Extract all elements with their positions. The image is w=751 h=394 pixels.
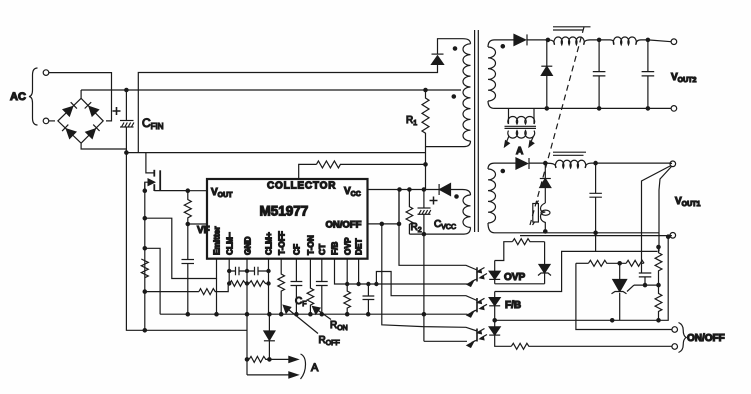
- MOSFET Q1 (startup device): [145, 153, 188, 191]
- transformer T1 primary winding: [426, 44, 471, 147]
- junction (368.4,284): [367, 282, 370, 285]
- junction (358.6,284): [357, 282, 360, 285]
- wire: [286, 308, 318, 334]
- terminal: [671, 39, 677, 45]
- phototransistor PC2 (F/B): [376, 272, 487, 318]
- wire AC2 to bridge left corner: [49, 120, 55, 122]
- wire arrow A1: [269, 358, 291, 360]
- wire to V_OUT2 + terminal: [648, 40, 671, 42]
- node C_FIN bottom: [125, 151, 128, 154]
- junction (494.7,320.3): [493, 319, 496, 322]
- svg-text:CLM−: CLM−: [225, 232, 235, 255]
- svg-text:Emitter: Emitter: [212, 226, 222, 255]
- wire: [283, 305, 290, 313]
- capacitor C_FIN: [113, 90, 134, 153]
- AC brace: [29, 68, 38, 125]
- primary tap polarity dot: [452, 95, 455, 98]
- resistor OVP series: [512, 239, 544, 245]
- junction (296.4,314.2): [295, 313, 298, 316]
- junction (269.4,359.4): [268, 358, 271, 361]
- gate rail: [144, 183, 146, 331]
- S1 polarity dot: [501, 45, 504, 48]
- capacitor GND to CLM+: [247, 267, 269, 275]
- ferrite bead: [541, 203, 551, 231]
- diode drive (below CLM+): [264, 314, 275, 359]
- wire + rail (y=90) to transformer tap: [81, 89, 461, 91]
- diode rect V_OUT1: [516, 158, 545, 169]
- junction (144.8,190.7): [143, 189, 146, 192]
- junction (658.5,247): [657, 245, 660, 248]
- junction (381.8,223.9): [380, 222, 383, 225]
- capacitor VF filter: [182, 224, 195, 314]
- wire: [659, 237, 669, 321]
- wire aux return down through rail to PC3 emitter: [423, 234, 425, 341]
- junction (545.3,231.4): [544, 230, 547, 233]
- terminal: [670, 233, 676, 239]
- wire clamp line y=72.5: [138, 65, 437, 153]
- capacitor FB comp: [639, 263, 652, 285]
- diode rect V_OUT2: [514, 34, 548, 45]
- svg-text:F/B: F/B: [330, 242, 340, 255]
- sense line A from +terminal: [642, 166, 672, 264]
- svg-text:CT: CT: [317, 244, 327, 255]
- resistor (VOUT to VF): [184, 191, 191, 224]
- secondary winding S1 (V_OUT2): [488, 40, 514, 109]
- DET pin stub: [358, 259, 360, 284]
- junction (619.7,263.3): [618, 262, 621, 265]
- wire AC1 to bridge right corner: [49, 73, 112, 121]
- wire bridge - output to C_FIN bottom node: [81, 143, 126, 149]
- junction (368.2,314.2): [367, 313, 370, 316]
- wire F/B anode feed: [495, 251, 658, 291]
- resistor GND to CLM+: [249, 281, 269, 287]
- svg-text:COLLECTOR: COLLECTOR: [267, 181, 336, 192]
- wire collector pin: [299, 164, 317, 179]
- wire: [313, 307, 321, 315]
- junction (647.9,39.9): [646, 38, 649, 41]
- junction (310.4,314.2): [309, 313, 312, 316]
- clamp diode (primary top): [432, 39, 471, 65]
- ON/OFF pullup line: [576, 263, 672, 329]
- resistor FB bias 1: [588, 260, 619, 266]
- F/B pin net: [335, 259, 468, 284]
- junction (281.2,314.2): [280, 313, 283, 316]
- divider resistor upper: [655, 247, 662, 285]
- junction (187.8,314.2): [186, 313, 189, 316]
- wire: [289, 356, 298, 362]
- node + rail: [125, 88, 128, 91]
- resistor OVP pin: [344, 259, 351, 315]
- pin ladder caps CLM-/GND/CLM+: [228, 259, 271, 315]
- svg-text:CLM+: CLM+: [264, 232, 274, 255]
- junction (423.9,189.5): [422, 188, 425, 191]
- V_OUT2 return rail: [495, 107, 672, 109]
- junction (144.8,218.2): [143, 217, 146, 220]
- node VF: [186, 222, 189, 225]
- IC pin labels: [212, 226, 364, 255]
- svg-text:OVP: OVP: [343, 237, 353, 255]
- resistor FB bias 2: [620, 260, 644, 266]
- wire to V_OUT1 + terminal: [596, 162, 672, 164]
- left rail from C_FIN minus: [126, 153, 247, 331]
- node collector R1 bottom: [424, 163, 427, 166]
- bridge rectifier D1-D4: [58, 98, 103, 143]
- junction (409.4,189.5): [408, 188, 411, 191]
- resistor R1: [422, 90, 429, 164]
- phototransistor PC3 (ON/OFF): [382, 323, 487, 348]
- terminal: [671, 106, 677, 112]
- svg-text:A: A: [516, 146, 523, 157]
- wire rail2 to bottom rail: [145, 248, 160, 314]
- svg-text:ON/OFF: ON/OFF: [687, 333, 725, 344]
- junction (645,285.1): [643, 283, 646, 286]
- junction (658.5,285.1): [657, 283, 660, 286]
- svg-text:OVP: OVP: [504, 272, 525, 283]
- terminal: [670, 161, 676, 167]
- wire emitter pin stub: [216, 279, 218, 315]
- LED ON/OFF: [489, 320, 511, 346]
- wire to IC V_OUT pin: [188, 190, 207, 192]
- resistor ON/OFF series: [511, 343, 672, 349]
- sense line B from +terminal: [659, 167, 672, 252]
- aux polarity dot: [455, 195, 458, 198]
- zener OVP: [538, 242, 551, 284]
- node R1 top: [424, 88, 427, 91]
- junction (216.5,314.2): [215, 313, 218, 316]
- secondary winding S2 (V_OUT1): [488, 163, 516, 233]
- wire: [425, 164, 427, 189]
- junction (247,359.4): [245, 358, 248, 361]
- diode freewheel V_OUT2: [541, 40, 552, 109]
- choke L1 with core: [548, 27, 599, 45]
- junction (668.2,236.7): [667, 235, 670, 238]
- damping resistor (rectangle): [533, 201, 539, 226]
- choke L2: [599, 37, 648, 45]
- capacitor C_VCC: [418, 190, 438, 235]
- junction (612.2,320.3): [611, 319, 614, 322]
- shunt regulator TL431: [612, 263, 635, 320]
- resistor R2: [406, 190, 413, 235]
- junction (547.9,39.9): [546, 38, 549, 41]
- transformer aux winding: [409, 195, 470, 234]
- junction (423.9,234.1): [422, 232, 425, 235]
- junction (321.8,314.2): [320, 313, 323, 316]
- wire emitter loop: [145, 218, 217, 278]
- wire ON/OFF pin to Vcc pullup: [368, 190, 400, 224]
- junction (376.4,284): [375, 282, 378, 285]
- wire VF to IC: [188, 223, 207, 225]
- divider resistor lower: [655, 285, 662, 320]
- junction (595.6,163.1): [594, 161, 597, 164]
- resistor CLM- sense: [199, 284, 228, 295]
- capacitor C_out2 a: [593, 40, 606, 109]
- V_OUT1 return rail: [495, 232, 659, 234]
- junction (144.8,330.3): [143, 329, 146, 332]
- svg-text:AC: AC: [10, 91, 26, 103]
- junction (347.2,314.2): [346, 313, 349, 316]
- capacitor C_out2 b: [642, 42, 655, 109]
- wire minus rail y=152.6: [126, 152, 425, 154]
- wire ON/OFF pin down to PC3 collector: [381, 224, 383, 323]
- wire GND line down: [246, 314, 248, 375]
- dashed coupling line: [530, 27, 584, 225]
- S2 polarity dot: [501, 169, 504, 172]
- transformer A core: [505, 126, 537, 128]
- wire Vcc line: [368, 189, 440, 191]
- svg-text:M51977: M51977: [260, 204, 309, 219]
- junction (595.6,232.8): [594, 231, 597, 234]
- junction (399,223.9): [397, 222, 400, 225]
- IC U1 M51977 box: [207, 179, 368, 259]
- capacitor CT pin: [316, 259, 328, 315]
- svg-text:DET: DET: [354, 238, 364, 255]
- junction (647.9,108.4): [646, 107, 649, 110]
- capacitor C_out1: [589, 163, 602, 251]
- LED OVP: [489, 261, 500, 284]
- junction (546.8,108.4): [545, 107, 548, 110]
- primary polarity dot top: [453, 47, 456, 50]
- wire OVP anode feed: [495, 242, 513, 261]
- junction (144.8,291.6): [143, 290, 146, 293]
- resistor R_OFF (T-OFF pin): [278, 259, 285, 315]
- choke L3 with core: [545, 152, 595, 168]
- terminal: [672, 327, 678, 333]
- AC input terminals: [43, 70, 49, 124]
- junction (545.3,163.1): [544, 161, 547, 164]
- diode Vcc charge: [439, 184, 470, 196]
- ON/OFF terminal 2: [672, 344, 678, 350]
- svg-text:T-ON: T-ON: [306, 235, 316, 255]
- wire arrow A2: [247, 374, 291, 376]
- ON/OFF brace: [679, 323, 687, 353]
- svg-text:F/B: F/B: [505, 300, 521, 311]
- wire: [289, 372, 298, 378]
- brace A: [301, 354, 306, 379]
- svg-text:GND: GND: [243, 237, 253, 255]
- svg-text:ON/OFF: ON/OFF: [326, 220, 362, 231]
- capacitor CF pin: [291, 259, 303, 315]
- junction (247,314.2): [245, 313, 248, 316]
- diode catch V_OUT1: [540, 163, 551, 203]
- resistor in gate rail: [141, 259, 148, 278]
- node V_OUT line: [186, 189, 189, 192]
- wire CLM- net: [145, 291, 199, 293]
- resistor collector clamp: [316, 161, 425, 168]
- wire zener to LED cathode: [495, 283, 545, 285]
- wire: [316, 309, 332, 320]
- wire bridge + output to C_FIN top node: [80, 90, 82, 98]
- svg-text:T-OFF: T-OFF: [277, 231, 287, 255]
- resistor R_ON (T-ON pin): [307, 259, 314, 315]
- junction (347.2,284): [346, 282, 349, 285]
- junction (269.4,314.2): [268, 313, 271, 316]
- capacitor CLM- to GND: [229, 267, 247, 275]
- transformer core: [475, 30, 479, 232]
- resistor CLM- to GND: [229, 281, 246, 287]
- svg-text:A: A: [311, 362, 319, 374]
- wire FB bias: [576, 262, 589, 264]
- capacitor OVP filter: [363, 284, 375, 314]
- junction (599.1,39.9): [597, 38, 600, 41]
- resistor drive: [249, 356, 269, 362]
- junction (599.1,108.4): [597, 107, 600, 110]
- junction (399.5,189.5): [398, 188, 401, 191]
- transformer A bottom winding: [505, 131, 535, 147]
- junction (658.5,320.3): [657, 319, 660, 322]
- svg-text:CF: CF: [292, 244, 302, 255]
- junction (423.9,314.2): [422, 313, 425, 316]
- V_OUT1 terminal 2 wire: [520, 235, 672, 237]
- junction (144.8,248.3): [143, 247, 146, 250]
- LED F/B: [489, 292, 500, 321]
- transformer A top winding: [508, 108, 535, 124]
- wire FB ground line: [495, 319, 659, 321]
- wire ref line: [634, 284, 659, 286]
- phototransistor PC1 (OVP): [399, 190, 487, 287]
- bottom rail: [160, 313, 467, 315]
